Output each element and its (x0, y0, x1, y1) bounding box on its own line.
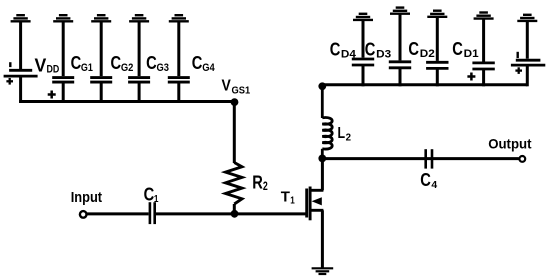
svg-text:C: C (111, 53, 122, 73)
svg-text:C: C (420, 170, 431, 190)
svg-text:4: 4 (431, 179, 437, 191)
wire gate bias bus (19, 100, 236, 103)
wire CG4 to gate bus (177, 82, 180, 103)
terminal Output (519, 156, 525, 162)
svg-text:D2: D2 (420, 48, 435, 60)
wire CD3 to drain bus (399, 68, 402, 87)
wire CG1 to gate bus (62, 82, 65, 103)
wire CD1 to drain bus (482, 69, 485, 86)
capacitor CG4 (168, 78, 190, 83)
label + near CD1 (467, 73, 475, 81)
wire T1 drain up (321, 158, 324, 190)
capacitor CD3 (389, 62, 411, 68)
svg-text:2: 2 (346, 131, 352, 143)
wire battery VDD to gate bus (19, 76, 22, 103)
wire T1 source down (321, 210, 324, 268)
ground top of CD4 (353, 14, 373, 20)
inductor L2 (322, 86, 332, 158)
svg-text:C: C (330, 40, 341, 60)
label VGS1 (222, 78, 251, 97)
capacitor CD1 (472, 63, 494, 69)
label C1 (144, 184, 159, 205)
capacitor CG2 (90, 78, 112, 83)
capacitor C1 (150, 202, 155, 224)
ground top of battery VDD (11, 15, 31, 21)
svg-text:G3: G3 (157, 62, 170, 74)
label VDD (35, 55, 60, 75)
svg-text:D3: D3 (376, 49, 391, 61)
capacitor CD4 (352, 59, 374, 65)
svg-text:C: C (408, 39, 419, 59)
label CD3 (365, 40, 391, 61)
label + near CG1 (48, 91, 56, 99)
label T1 (281, 189, 295, 207)
svg-text:1: 1 (154, 193, 159, 205)
label CG2 (111, 53, 134, 74)
svg-text:C: C (192, 53, 203, 73)
svg-text:C: C (452, 39, 463, 59)
svg-text:Input: Input (71, 189, 102, 206)
svg-text:T: T (281, 189, 290, 206)
capacitor C4 (426, 149, 432, 168)
wire battery VD to drain bus (526, 65, 529, 86)
wire CG1 ground stem (62, 21, 65, 76)
svg-text:C: C (71, 53, 82, 73)
label + of battery VDD (6, 78, 13, 85)
battery VD (511, 52, 545, 65)
terminal Input (80, 211, 87, 218)
svg-text:L: L (338, 125, 346, 142)
svg-text:D1: D1 (464, 48, 479, 60)
label C4 (420, 170, 437, 191)
node drain bus junction (318, 82, 326, 90)
svg-text:D4: D4 (341, 49, 357, 61)
wire CD2 to drain bus (436, 68, 439, 86)
wire CG3 ground stem (138, 21, 141, 76)
node VGS1 (231, 98, 239, 106)
capacitor CG1 (52, 78, 74, 83)
wire VGS1 node to R2 (233, 102, 236, 163)
label CD1 (452, 39, 478, 60)
wire CD4 to drain bus (362, 65, 365, 86)
battery VDD (4, 62, 38, 76)
label CG4 (192, 53, 216, 74)
label L2 (338, 125, 352, 143)
wire Input to C1 (87, 212, 149, 215)
label CG3 (146, 53, 169, 74)
label CG1 (71, 53, 93, 74)
capacitor CG3 (128, 78, 150, 83)
wire C1 to gate of T1 (156, 212, 307, 215)
node L2 bottom junction (318, 155, 326, 163)
svg-text:C: C (146, 53, 157, 73)
wire CD3 ground stem (399, 14, 402, 61)
ground top of battery VD (517, 15, 537, 21)
resistor R2 (226, 163, 243, 205)
label + of battery VD (515, 67, 522, 74)
wire CD2 ground stem (436, 17, 439, 61)
svg-text:GS1: GS1 (232, 85, 251, 96)
svg-text:G2: G2 (121, 62, 133, 74)
svg-text:DD: DD (47, 64, 60, 76)
ground top of CG4 (169, 15, 189, 21)
svg-text:1: 1 (290, 195, 295, 207)
ground top of CG3 (129, 15, 149, 21)
svg-text:V: V (222, 78, 232, 95)
wire CD4 ground stem (362, 20, 365, 58)
svg-text:V: V (35, 55, 47, 75)
label R2 (252, 173, 268, 194)
transistor T1 (307, 187, 324, 221)
ground top of CD1 (474, 13, 494, 19)
ground top of CG2 (91, 15, 111, 21)
wire battery VDD ground stem (19, 21, 22, 69)
ground top of CG1 (53, 15, 73, 21)
wire CG4 ground stem (177, 21, 180, 76)
label CD4 (330, 40, 357, 61)
wire output line (322, 157, 518, 160)
svg-text:G4: G4 (202, 62, 215, 74)
ground top of CD2 (427, 11, 447, 17)
node gate junction (231, 210, 239, 218)
label CD2 (408, 39, 434, 60)
svg-text:R: R (252, 173, 263, 193)
wire CD1 ground stem (482, 19, 485, 62)
wire CG2 ground stem (100, 21, 103, 76)
wire R2 to gate node (233, 204, 236, 214)
wire drain bias bus (322, 83, 527, 86)
ground at T1 source (312, 268, 334, 274)
wire CG3 to gate bus (138, 82, 141, 103)
wire CG2 to gate bus (100, 82, 103, 103)
capacitor CD2 (426, 62, 448, 68)
svg-text:2: 2 (263, 179, 268, 193)
svg-text:C: C (365, 40, 376, 60)
svg-text:C: C (144, 184, 155, 204)
wire battery VD ground stem (526, 21, 529, 59)
svg-text:G1: G1 (81, 62, 93, 74)
ground top of CD3 (390, 8, 410, 14)
svg-text:Output: Output (488, 136, 532, 152)
